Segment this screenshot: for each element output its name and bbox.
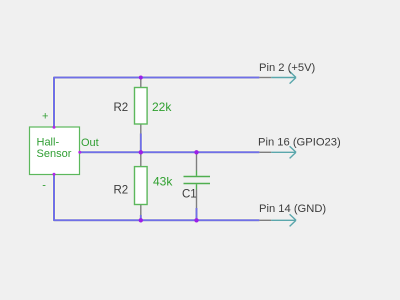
junction: +5V rail / R2 22k top [139,76,143,80]
svg-text:R2: R2 [114,185,129,197]
resistor R2 (22k) [135,78,148,134]
pin node: Hall-Sensor Out [78,151,81,154]
net port arrow Pin 2 [259,71,296,83]
wire: +5V net from Hall-Sensor pin + up and right to Pin 2 port [54,78,259,128]
wire halo layer [54,78,259,221]
svg-text:22k: 22k [152,100,172,114]
svg-text:Out: Out [81,137,99,149]
junction: GND rail / C1 bottom [194,218,198,222]
resistor R2 (43k) [135,152,148,215]
wire: R2 43k bottom pin to GND net [140,215,142,220]
svg-text:R2: R2 [114,102,129,114]
svg-text:Hall-: Hall- [37,136,60,148]
junction: GND rail / R2 43k bottom [139,218,143,222]
junction: signal rail / R2 junction [139,150,143,154]
pin node: Hall-Sensor - [53,173,56,176]
wire: signal net from Hall-Sensor Out right to Pin 16 port [80,151,260,153]
hall sensor box [30,127,80,175]
capacitor C1 [184,152,211,208]
svg-text:Pin 2 (+5V): Pin 2 (+5V) [259,62,316,74]
svg-text:+: + [42,111,48,123]
junction: signal rail / C1 top [194,150,198,154]
wire: C1 bottom pin to GND net [196,208,198,220]
svg-text:43k: 43k [153,175,173,189]
label Hall-Sensor [37,136,72,160]
svg-text:C1: C1 [182,189,197,201]
svg-text:-: - [42,179,46,191]
net port arrow Pin 16 [259,146,296,158]
wire: R2 22k bottom pin to signal net [140,134,142,153]
svg-text:Pin 14 (GND): Pin 14 (GND) [259,203,326,215]
wire: GND net from Hall-Sensor pin - down and right to Pin 14 port [54,175,259,221]
pin node: Hall-Sensor + [53,126,56,129]
net port arrow Pin 14 [259,214,296,226]
svg-text:Pin 16 (GPIO23): Pin 16 (GPIO23) [258,137,341,149]
svg-text:Sensor: Sensor [37,148,72,160]
